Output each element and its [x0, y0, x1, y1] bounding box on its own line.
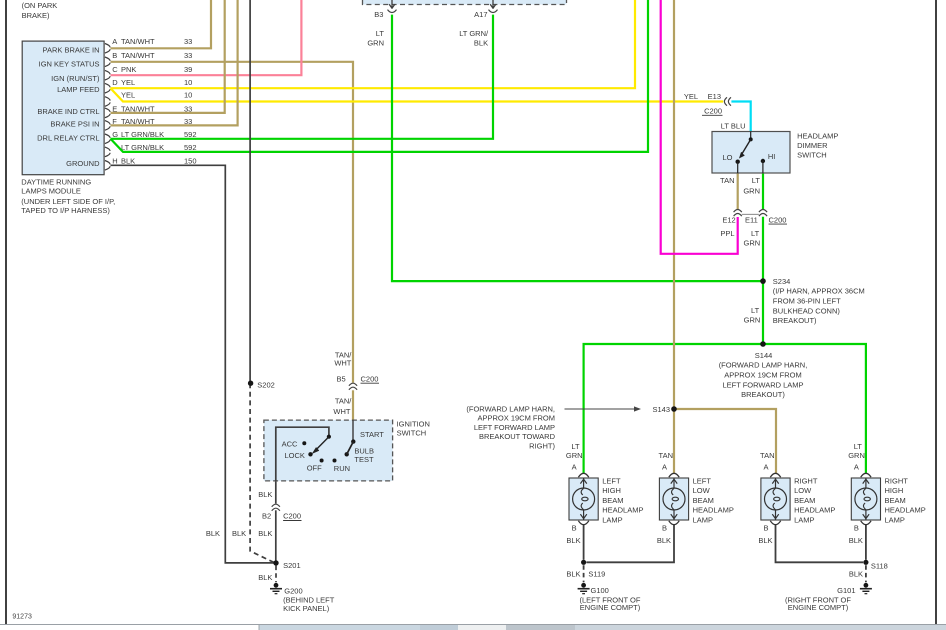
svg-text:TAPED TO I/P HARNESS): TAPED TO I/P HARNESS)	[21, 206, 110, 215]
svg-text:BRAKE): BRAKE)	[22, 11, 50, 20]
svg-text:TAN: TAN	[720, 176, 734, 185]
svg-text:HEADLAMP: HEADLAMP	[794, 506, 835, 515]
svg-text:DIMMER: DIMMER	[797, 141, 828, 150]
svg-text:BLK: BLK	[566, 536, 580, 545]
svg-text:B: B	[112, 51, 117, 60]
svg-text:A: A	[662, 462, 667, 471]
svg-text:A: A	[854, 462, 859, 471]
svg-text:33: 33	[184, 51, 192, 60]
svg-text:B: B	[572, 523, 577, 532]
svg-text:TAN/: TAN/	[335, 397, 352, 406]
svg-text:B: B	[854, 523, 859, 532]
svg-text:B: B	[662, 523, 667, 532]
svg-text:HIGH: HIGH	[885, 486, 904, 495]
svg-text:GROUND: GROUND	[66, 159, 100, 168]
svg-text:HEADLAMP: HEADLAMP	[602, 506, 643, 515]
svg-text:YEL: YEL	[121, 91, 135, 100]
svg-text:LT BLU: LT BLU	[721, 122, 746, 131]
svg-text:DAYTIME RUNNING: DAYTIME RUNNING	[21, 178, 91, 187]
svg-text:BLK: BLK	[258, 573, 272, 582]
svg-text:TAN/WHT: TAN/WHT	[121, 51, 155, 60]
svg-text:BLK: BLK	[566, 570, 580, 579]
svg-text:LOW: LOW	[794, 486, 812, 495]
svg-text:S201: S201	[283, 561, 301, 570]
svg-text:C200: C200	[769, 215, 787, 224]
svg-text:START: START	[360, 430, 384, 439]
svg-text:BLK: BLK	[758, 536, 772, 545]
svg-text:GRN: GRN	[367, 39, 384, 48]
svg-text:SWITCH: SWITCH	[797, 150, 827, 159]
svg-text:B5: B5	[337, 374, 346, 383]
svg-text:BREAKOUT TOWARD: BREAKOUT TOWARD	[479, 432, 556, 441]
svg-text:LAMP FEED: LAMP FEED	[57, 85, 100, 94]
svg-text:G200: G200	[284, 587, 302, 596]
svg-text:HEADLAMP: HEADLAMP	[797, 131, 838, 140]
svg-text:(UNDER LEFT SIDE OF I/P,: (UNDER LEFT SIDE OF I/P,	[21, 197, 115, 206]
svg-text:LT: LT	[376, 29, 385, 38]
svg-text:GRN: GRN	[848, 451, 865, 460]
svg-text:PNK: PNK	[121, 65, 136, 74]
svg-text:(FORWARD LAMP HARN,: (FORWARD LAMP HARN,	[719, 361, 808, 370]
svg-text:LT: LT	[571, 442, 580, 451]
svg-text:(ON PARK: (ON PARK	[22, 1, 58, 10]
svg-text:B3: B3	[374, 10, 383, 19]
svg-text:E11: E11	[745, 215, 758, 224]
svg-text:BREAKOUT): BREAKOUT)	[773, 316, 817, 325]
svg-text:IGN KEY STATUS: IGN KEY STATUS	[39, 60, 100, 69]
svg-text:OFF: OFF	[307, 463, 322, 472]
svg-text:ENGINE COMPT): ENGINE COMPT)	[580, 603, 641, 612]
svg-text:39: 39	[184, 65, 192, 74]
svg-text:B2: B2	[262, 512, 271, 521]
svg-text:91273: 91273	[12, 614, 32, 621]
svg-text:RUN: RUN	[334, 464, 350, 473]
svg-text:BLK: BLK	[258, 529, 272, 538]
svg-text:APPROX 19CM FROM: APPROX 19CM FROM	[724, 371, 802, 380]
svg-text:G101: G101	[837, 586, 855, 595]
svg-text:BEAM: BEAM	[693, 496, 714, 505]
svg-text:PARK BRAKE IN: PARK BRAKE IN	[43, 45, 100, 54]
svg-text:S143: S143	[652, 405, 670, 414]
svg-text:33: 33	[184, 37, 192, 46]
svg-text:BRAKE IND CTRL: BRAKE IND CTRL	[37, 107, 99, 116]
svg-text:LT: LT	[751, 306, 760, 315]
svg-text:LT GRN/: LT GRN/	[459, 29, 489, 38]
svg-text:LEFT FORWARD LAMP: LEFT FORWARD LAMP	[722, 380, 803, 389]
svg-text:S119: S119	[588, 570, 605, 579]
svg-text:A: A	[763, 462, 768, 471]
svg-text:HIGH: HIGH	[602, 486, 621, 495]
svg-text:(I/P HARN, APPROX 36CM: (I/P HARN, APPROX 36CM	[773, 287, 865, 296]
svg-text:S118: S118	[871, 561, 888, 570]
svg-text:S234: S234	[773, 277, 791, 286]
svg-text:SWITCH: SWITCH	[397, 429, 427, 438]
svg-text:GRN: GRN	[744, 316, 761, 325]
svg-text:A: A	[572, 462, 577, 471]
svg-text:YEL: YEL	[121, 78, 135, 87]
svg-text:ACC: ACC	[282, 440, 298, 449]
svg-text:LO: LO	[722, 153, 732, 162]
svg-text:LAMP: LAMP	[693, 515, 713, 524]
svg-text:C200: C200	[283, 512, 301, 521]
svg-text:YEL: YEL	[684, 92, 698, 101]
svg-text:LEFT FORWARD LAMP: LEFT FORWARD LAMP	[474, 423, 555, 432]
svg-text:BULB: BULB	[354, 446, 374, 455]
svg-text:LT: LT	[854, 442, 863, 451]
svg-text:TAN: TAN	[659, 451, 673, 460]
svg-text:BLK: BLK	[657, 536, 671, 545]
svg-text:S202: S202	[257, 380, 275, 389]
svg-text:LAMP: LAMP	[602, 515, 622, 524]
svg-text:H: H	[112, 157, 117, 166]
svg-text:E12: E12	[722, 215, 735, 224]
svg-text:BLK: BLK	[258, 490, 272, 499]
svg-text:KICK PANEL): KICK PANEL)	[283, 604, 330, 613]
svg-text:BEAM: BEAM	[885, 496, 906, 505]
svg-text:LT: LT	[752, 176, 761, 185]
svg-text:S144: S144	[755, 351, 773, 360]
svg-text:HEADLAMP: HEADLAMP	[693, 506, 734, 515]
svg-text:E13: E13	[708, 92, 721, 101]
svg-text:LT: LT	[751, 229, 760, 238]
svg-text:BLK: BLK	[121, 157, 135, 166]
svg-text:WHT: WHT	[334, 359, 351, 368]
svg-text:C200: C200	[704, 107, 722, 116]
svg-text:RIGHT): RIGHT)	[529, 442, 555, 451]
svg-text:10: 10	[184, 91, 192, 100]
svg-text:BLK: BLK	[232, 529, 246, 538]
svg-text:TEST: TEST	[354, 455, 374, 464]
svg-text:BLK: BLK	[206, 529, 220, 538]
svg-text:A: A	[112, 37, 117, 46]
svg-text:GRN: GRN	[566, 451, 583, 460]
svg-text:HI: HI	[768, 152, 776, 161]
svg-text:LOW: LOW	[693, 486, 711, 495]
svg-text:150: 150	[184, 157, 197, 166]
svg-text:IGN (RUN/ST): IGN (RUN/ST)	[51, 74, 100, 83]
svg-text:LAMP: LAMP	[885, 515, 905, 524]
svg-text:HEADLAMP: HEADLAMP	[885, 506, 926, 515]
svg-text:BREAKOUT): BREAKOUT)	[741, 390, 785, 399]
svg-text:TAN: TAN	[760, 451, 774, 460]
svg-text:PPL: PPL	[720, 229, 734, 238]
svg-text:C: C	[112, 65, 118, 74]
svg-text:ENGINE COMPT): ENGINE COMPT)	[788, 603, 849, 612]
svg-text:BEAM: BEAM	[794, 496, 815, 505]
svg-text:RIGHT: RIGHT	[794, 477, 818, 486]
svg-text:BRAKE PSI IN: BRAKE PSI IN	[50, 120, 99, 129]
svg-text:LOCK: LOCK	[285, 451, 305, 460]
svg-text:LAMP: LAMP	[794, 515, 814, 524]
svg-text:LT GRN/BLK: LT GRN/BLK	[121, 143, 164, 152]
svg-text:BLK: BLK	[849, 536, 863, 545]
svg-text:TAN/WHT: TAN/WHT	[121, 37, 155, 46]
svg-text:592: 592	[184, 143, 197, 152]
svg-text:BLK: BLK	[849, 570, 863, 579]
svg-text:GRN: GRN	[744, 239, 761, 248]
svg-text:WHT: WHT	[333, 407, 350, 416]
svg-text:C200: C200	[361, 374, 379, 383]
svg-text:BULKHEAD CONN): BULKHEAD CONN)	[773, 306, 841, 315]
svg-text:LEFT: LEFT	[693, 477, 712, 486]
svg-text:G100: G100	[591, 586, 609, 595]
svg-text:LEFT: LEFT	[602, 477, 621, 486]
svg-text:(FORWARD LAMP HARN,: (FORWARD LAMP HARN,	[466, 404, 555, 413]
svg-text:BLK: BLK	[474, 39, 488, 48]
svg-text:D: D	[112, 78, 118, 87]
svg-text:B: B	[763, 523, 768, 532]
svg-text:IGNITION: IGNITION	[397, 420, 430, 429]
svg-text:BEAM: BEAM	[602, 496, 623, 505]
svg-text:FROM 36-PIN LEFT: FROM 36-PIN LEFT	[773, 297, 841, 306]
svg-text:10: 10	[184, 78, 192, 87]
svg-text:LAMPS MODULE: LAMPS MODULE	[21, 187, 81, 196]
svg-text:GRN: GRN	[743, 186, 760, 195]
svg-text:A17: A17	[474, 10, 487, 19]
svg-text:RIGHT: RIGHT	[885, 477, 909, 486]
svg-text:DRL RELAY CTRL: DRL RELAY CTRL	[37, 133, 99, 142]
svg-text:APPROX 19CM FROM: APPROX 19CM FROM	[477, 414, 555, 423]
